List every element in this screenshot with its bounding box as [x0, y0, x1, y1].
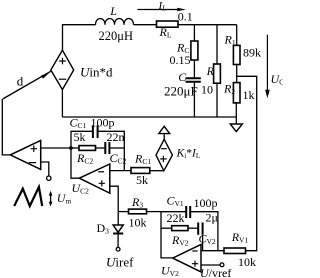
arrow UC line: [266, 35, 268, 94]
wire CC1 to right vertical: [98, 131, 125, 170]
svg-text:CV1: CV1: [167, 193, 184, 208]
wire C to bottom rail: [193, 82, 195, 117]
wire RC1 to UC2 minus input: [110, 170, 131, 172]
wire comparator plus input to dot: [41, 147, 71, 149]
svg-text:10k: 10k: [129, 215, 147, 229]
svg-text:1k: 1k: [243, 88, 255, 102]
wire UV2 plus input to terminal: [201, 264, 220, 266]
ground: [230, 124, 242, 132]
wire CC1 top path left: [71, 130, 93, 132]
svg-text:RV2: RV2: [171, 233, 189, 248]
svg-text:5k: 5k: [136, 173, 148, 187]
plus sign in comparator: [31, 146, 37, 152]
node junction dot: [69, 146, 73, 150]
current arrow IL: [137, 9, 178, 11]
capacitor C plates: [186, 78, 201, 81]
wire RC to C: [193, 60, 195, 78]
wire UV2 output junction vertical: [161, 212, 173, 258]
capacitor CC2 plates: [105, 142, 109, 154]
wire R2 to ground: [235, 103, 237, 124]
svg-text:R1: R1: [224, 33, 236, 48]
svg-text:UC: UC: [271, 72, 284, 87]
source Ki*IL diamond: [156, 139, 172, 171]
wire RC2 to CC2: [96, 147, 106, 149]
op-amp UV2: [173, 245, 201, 272]
wire UC2 plus input: [110, 186, 118, 211]
arrowhead IL: [177, 8, 186, 11]
svg-text:D3: D3: [97, 221, 110, 236]
op-amp U1 comparator: [10, 140, 40, 169]
wire comparator minus input to terminal: [41, 162, 49, 176]
arrowhead Um top: [49, 191, 53, 196]
svg-text:IL: IL: [158, 0, 167, 13]
wire rail RL to R1 corner: [178, 24, 237, 26]
resistor R3: [129, 209, 147, 214]
minus sign in Ki diamond: [161, 148, 167, 150]
svg-text:22n: 22n: [107, 130, 125, 144]
wire rail corner to R1: [236, 25, 238, 46]
svg-text:220μH: 220μH: [99, 29, 133, 43]
svg-text:100p: 100p: [91, 115, 115, 129]
svg-text:CV2: CV2: [199, 231, 216, 246]
svg-text:UV2: UV2: [161, 263, 179, 278]
resistor RV2: [172, 226, 188, 231]
svg-text:RC2: RC2: [76, 151, 93, 166]
svg-text:R: R: [206, 64, 215, 78]
svg-text:10k: 10k: [238, 255, 256, 269]
minus sign in UV2: [192, 250, 197, 252]
wire comparator output to d: [2, 99, 10, 155]
resistor RC1: [131, 168, 150, 174]
svg-text:100p: 100p: [194, 196, 218, 210]
svg-text:Uin*d: Uin*d: [80, 65, 113, 80]
minus sign in comparator: [29, 162, 36, 164]
wire UC2 output to feedback left: [71, 131, 79, 178]
wire up triangle to Ki diamond: [163, 134, 165, 140]
resistor RL: [157, 21, 179, 27]
svg-text:0.15: 0.15: [170, 53, 191, 67]
resistor RV1: [224, 248, 246, 254]
arrow d line: [3, 71, 51, 99]
svg-text:d: d: [17, 74, 24, 89]
terminal circle sawtooth: [47, 176, 51, 180]
svg-text:Um: Um: [57, 191, 72, 206]
svg-text:22k: 22k: [167, 211, 185, 225]
diode D3 wire: [117, 212, 119, 225]
wire UV2 minus input to RV1: [201, 250, 224, 252]
resistor R1: [233, 45, 240, 64]
wire R3 to UV2 junction: [147, 211, 162, 213]
capacitor CV2 plates: [198, 223, 202, 235]
svg-text:0.1: 0.1: [178, 10, 193, 24]
terminal circle Uvref: [220, 263, 224, 267]
resistor R2: [233, 83, 240, 103]
resistor R branch riser: [216, 25, 218, 64]
arrowhead Um bottom: [49, 202, 53, 207]
up triangle above Ki source: [159, 126, 170, 133]
svg-text:Uiref: Uiref: [106, 254, 134, 269]
capacitor CC1 plates: [93, 125, 98, 138]
svg-text:RV1: RV1: [231, 230, 249, 245]
wire RC2 path left: [71, 147, 79, 149]
minus sign in UC2: [98, 171, 104, 173]
svg-text:220μF: 220μF: [164, 83, 198, 98]
wire D3 to Uiref terminal: [117, 234, 119, 248]
wire Ki diamond bottom to RC1: [150, 170, 164, 172]
wire diamond bottom riser: [61, 90, 63, 117]
plus sign in UV2: [192, 261, 198, 267]
inductor L: [96, 18, 134, 24]
svg-text:RC1: RC1: [134, 151, 151, 166]
resistor R3 wire left: [118, 211, 128, 213]
diode D3 bar: [113, 233, 123, 235]
svg-text:R3: R3: [131, 195, 143, 210]
wire rail inductor to RL: [134, 24, 157, 26]
svg-text:UC2: UC2: [72, 181, 90, 196]
plus sign in UC2: [99, 180, 105, 186]
terminal circle Uiref: [116, 247, 120, 251]
diode D3: [113, 225, 123, 232]
resistor RC: [191, 41, 198, 60]
resistor R: [214, 64, 221, 83]
svg-text:U/vref: U/vref: [200, 266, 231, 278]
arrow Um double: [50, 194, 52, 204]
op-amp UC2: [79, 164, 110, 193]
wire CC2 to right vertical: [109, 147, 124, 149]
wire divider tap to right edge: [237, 76, 257, 250]
svg-text:L: L: [109, 4, 117, 18]
wire RV2 path left: [161, 227, 172, 229]
wire R1 to R2: [236, 65, 238, 83]
resistor RC2: [79, 146, 96, 151]
wire CV1 to right vertical: [190, 212, 218, 251]
wire CV1 path left: [161, 211, 186, 213]
svg-text:10: 10: [201, 83, 213, 97]
capacitor CV1 plates: [186, 206, 190, 218]
svg-text:2μ: 2μ: [206, 210, 218, 224]
svg-text:Ki*IL: Ki*IL: [176, 148, 201, 161]
wire top rail left: [63, 25, 96, 51]
svg-text:C: C: [178, 70, 187, 84]
sawtooth waveform: [14, 187, 42, 206]
plus sign in Uin*d: [59, 58, 66, 64]
arrowhead UC: [265, 90, 270, 98]
wire bottom rail: [62, 116, 236, 118]
resistor RC branch riser: [193, 25, 195, 41]
arrowhead d: [41, 73, 49, 79]
wire CV2 down to minus input: [202, 235, 204, 251]
minus sign in Uin*d: [59, 78, 66, 80]
plus sign in Ki diamond: [160, 156, 167, 162]
wire RV2 to CV2: [188, 227, 198, 229]
wire R to bottom rail: [216, 83, 218, 117]
source U1 Uin*d diamond: [51, 50, 74, 89]
svg-text:89k: 89k: [243, 45, 261, 59]
svg-text:5k: 5k: [74, 130, 86, 144]
